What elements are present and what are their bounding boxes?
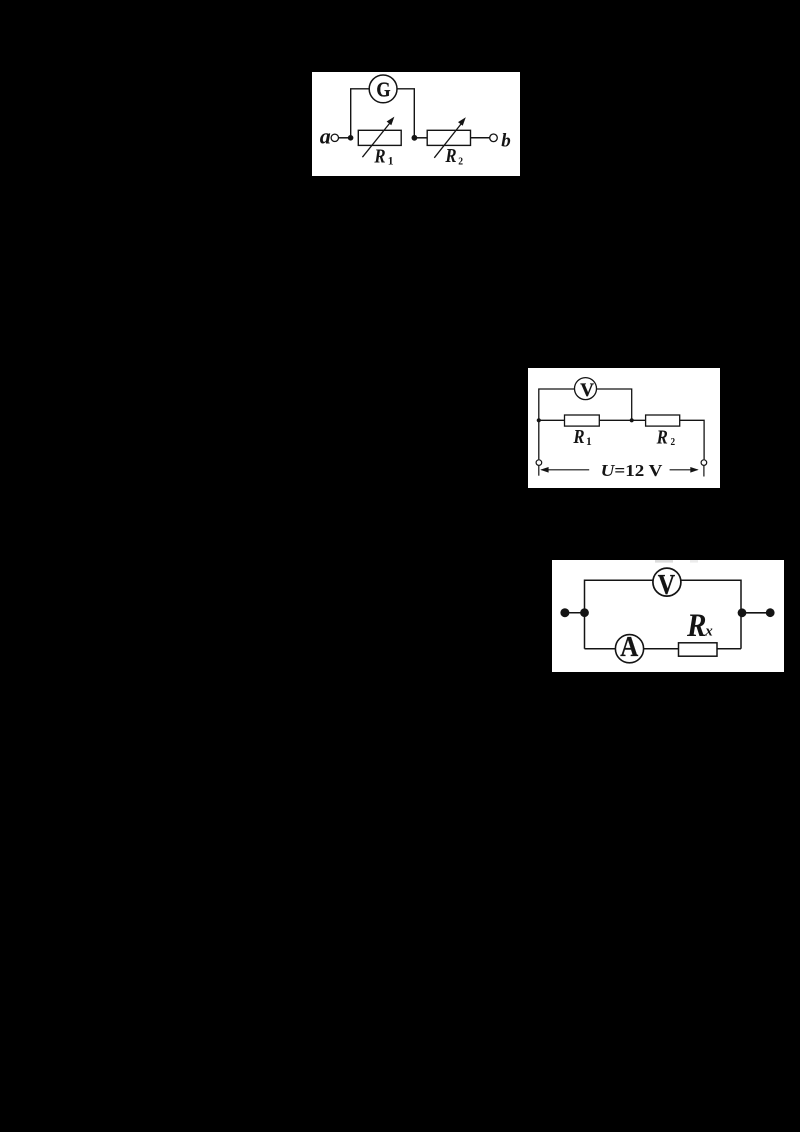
wire bottom left to ammeter bbox=[585, 648, 616, 650]
node left outer bbox=[560, 608, 569, 617]
svg-text:G: G bbox=[376, 78, 390, 102]
voltmeter V bbox=[653, 568, 681, 596]
smudge artifact top bbox=[655, 560, 673, 563]
resistor R1 bbox=[565, 415, 600, 426]
svg-text:R: R bbox=[445, 145, 457, 167]
terminal right bbox=[701, 460, 707, 466]
wire left vertical bbox=[585, 580, 653, 648]
junction node right bbox=[412, 135, 418, 141]
arrow across R1 bbox=[362, 121, 392, 158]
wire Rx to right vertical bbox=[717, 648, 741, 650]
panel: figure 2 (V over R1, series R2, U=12V) bbox=[528, 368, 720, 488]
wire G to right vertical bbox=[397, 89, 414, 138]
svg-text:b: b bbox=[501, 130, 511, 151]
tick below left terminal bbox=[538, 466, 540, 476]
panel: figure 1 (G with R1 R2 between a and b) bbox=[312, 72, 520, 176]
wire left vertical bbox=[539, 389, 575, 459]
svg-text:1: 1 bbox=[586, 436, 592, 448]
junction node mid bbox=[630, 418, 634, 422]
svg-text:A: A bbox=[620, 631, 638, 663]
junction node left bbox=[348, 135, 354, 141]
junction node left bbox=[537, 418, 541, 422]
wire left vertical to G bbox=[351, 89, 370, 138]
arrow across R2 bbox=[434, 121, 463, 158]
galvanometer G bbox=[369, 75, 397, 103]
wire R1 to R2 bbox=[599, 419, 645, 421]
svg-text:1: 1 bbox=[388, 155, 394, 167]
svg-text:U=12 V: U=12 V bbox=[601, 461, 664, 480]
resistor R2 bbox=[646, 415, 680, 426]
wire A to Rx bbox=[644, 648, 679, 650]
wire V to right vertical bbox=[681, 580, 741, 648]
tick below right terminal bbox=[703, 466, 705, 477]
svg-text:2: 2 bbox=[458, 155, 463, 167]
svg-text:R: R bbox=[573, 426, 585, 448]
terminal left bbox=[536, 460, 542, 466]
svg-text:x: x bbox=[704, 624, 713, 640]
terminal a bbox=[331, 134, 338, 141]
svg-text:R: R bbox=[686, 608, 706, 644]
wire a to junction bbox=[339, 137, 351, 139]
svg-text:V: V bbox=[658, 569, 675, 601]
dimension arrow right bbox=[670, 469, 698, 471]
node left inner bbox=[580, 608, 589, 617]
svg-text:a: a bbox=[320, 124, 331, 149]
terminal b bbox=[490, 134, 498, 142]
svg-text:2: 2 bbox=[671, 436, 676, 448]
svg-text:R: R bbox=[656, 427, 668, 449]
svg-text:R: R bbox=[374, 146, 386, 168]
resistor Rx bbox=[679, 643, 718, 656]
ammeter A bbox=[615, 635, 643, 663]
svg-text:V: V bbox=[580, 380, 594, 401]
dimension arrow left bbox=[542, 469, 590, 471]
wire right lead bbox=[742, 612, 770, 614]
wire junction to R2 bbox=[414, 137, 427, 139]
wire V to right vertical down to junction bbox=[597, 389, 632, 420]
wire R2 to terminal b bbox=[471, 137, 490, 139]
resistor R1 (variable) bbox=[358, 130, 401, 145]
panel: figure 3 (V parallel with A + Rx) bbox=[552, 560, 784, 672]
resistor R2 (variable) bbox=[427, 130, 470, 145]
node right outer bbox=[766, 608, 775, 617]
wire R2 to right vertical bbox=[680, 420, 704, 459]
voltmeter V bbox=[575, 378, 597, 400]
wire left lead bbox=[565, 612, 585, 614]
node right inner bbox=[738, 608, 747, 617]
wire main left bbox=[539, 419, 565, 421]
